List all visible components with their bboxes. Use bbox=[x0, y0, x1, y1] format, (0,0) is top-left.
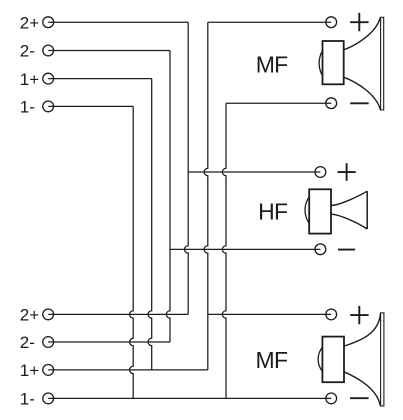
terminal circle input 1- top bbox=[43, 101, 54, 112]
HF magnet dome bbox=[305, 197, 309, 223]
svg-text:2-: 2- bbox=[20, 42, 35, 61]
MF top plus sign bbox=[350, 13, 368, 31]
wire MF top - horizontal to bus bbox=[226, 102, 331, 104]
wire input 2+ bottom horizontal bbox=[48, 313, 188, 315]
terminal circle HF + bbox=[315, 167, 326, 178]
wire input 2- top horizontal bbox=[48, 50, 170, 52]
svg-text:HF: HF bbox=[258, 199, 288, 225]
svg-text:1+: 1+ bbox=[20, 361, 39, 380]
wire HF- horizontal from 2- vertical bbox=[170, 248, 320, 250]
MF bottom horn flare bbox=[344, 313, 381, 406]
wire net 1+ vertical (hops over bottom 2+ and 2- rows) bbox=[148, 79, 152, 370]
MF bottom driver rectangle bbox=[322, 337, 344, 383]
speaker MF top bbox=[256, 13, 384, 110]
HF minus sign bbox=[338, 249, 355, 251]
wire MF+ bus vertical (hops over HF+ and HF- rows, T at bottom MF+ row) bbox=[204, 22, 208, 370]
wire MF- bus vertical (hops over HF+, HF-, bottom MF+ rows) bbox=[222, 103, 226, 398]
terminal circle MF top + bbox=[326, 17, 337, 28]
HF horn flare bbox=[331, 191, 367, 229]
svg-text:1+: 1+ bbox=[20, 70, 39, 89]
wire input 2+ top horizontal bbox=[48, 21, 188, 23]
MF top driver rectangle bbox=[323, 41, 344, 84]
wire MF top + horizontal to bus bbox=[208, 21, 331, 23]
MF bottom magnet dome bbox=[318, 347, 322, 371]
HF horn mouth bbox=[366, 191, 368, 229]
terminal circle input 2+ top bbox=[43, 17, 54, 28]
wire input 2- bottom horizontal bbox=[48, 341, 170, 343]
MF top horn flare bbox=[344, 17, 381, 110]
terminal circle input 1+ bottom bbox=[43, 365, 54, 376]
wire net 2+ vertical (hop over HF- row) bbox=[184, 22, 188, 314]
terminal circle input 1- bottom bbox=[43, 393, 54, 404]
terminal circle HF - bbox=[315, 244, 326, 255]
terminal circle MF top - bbox=[326, 98, 337, 109]
wire input 1+ top horizontal bbox=[48, 78, 152, 80]
svg-text:2-: 2- bbox=[20, 333, 35, 352]
svg-text:1-: 1- bbox=[20, 390, 35, 409]
svg-text:MF: MF bbox=[256, 52, 288, 78]
speaker MF bottom bbox=[255, 306, 383, 406]
wire net 1- vertical (hops over bottom 2+, 2-, 1+ rows) bbox=[129, 106, 133, 398]
wire net 2- vertical (hop over bottom 2+ row) bbox=[166, 51, 170, 343]
svg-text:1-: 1- bbox=[20, 98, 35, 117]
MF bottom horn mouth bbox=[381, 313, 384, 406]
MF bottom plus sign bbox=[350, 306, 368, 324]
terminal circle input 1+ top bbox=[43, 73, 54, 84]
terminal circle input 2- top bbox=[43, 45, 54, 56]
svg-text:MF: MF bbox=[255, 347, 287, 373]
svg-text:2+: 2+ bbox=[20, 13, 39, 32]
wire HF+ horizontal from 2+ vertical bbox=[188, 171, 320, 173]
wire bottom MF+ horizontal from bus bbox=[208, 313, 331, 315]
wire input 1- top horizontal bbox=[48, 105, 133, 107]
HF plus sign bbox=[338, 163, 356, 180]
MF top magnet dome bbox=[319, 51, 322, 76]
terminal circle input 2+ bottom bbox=[43, 309, 54, 320]
svg-text:2+: 2+ bbox=[20, 306, 39, 325]
MF top horn mouth bbox=[381, 17, 384, 110]
speaker HF bbox=[258, 163, 367, 249]
terminal circle MF bottom - bbox=[326, 393, 337, 404]
MF top minus sign bbox=[350, 102, 369, 104]
terminal circle input 2- bottom bbox=[43, 337, 54, 348]
terminal circle MF bottom + bbox=[326, 309, 337, 320]
wire input 1- bottom horizontal (runs to MF- terminal) bbox=[48, 397, 331, 399]
MF bottom minus sign bbox=[350, 397, 369, 399]
wire input 1+ bottom horizontal (ends at MF+ bus) bbox=[48, 369, 208, 371]
HF driver rectangle bbox=[309, 189, 331, 233]
